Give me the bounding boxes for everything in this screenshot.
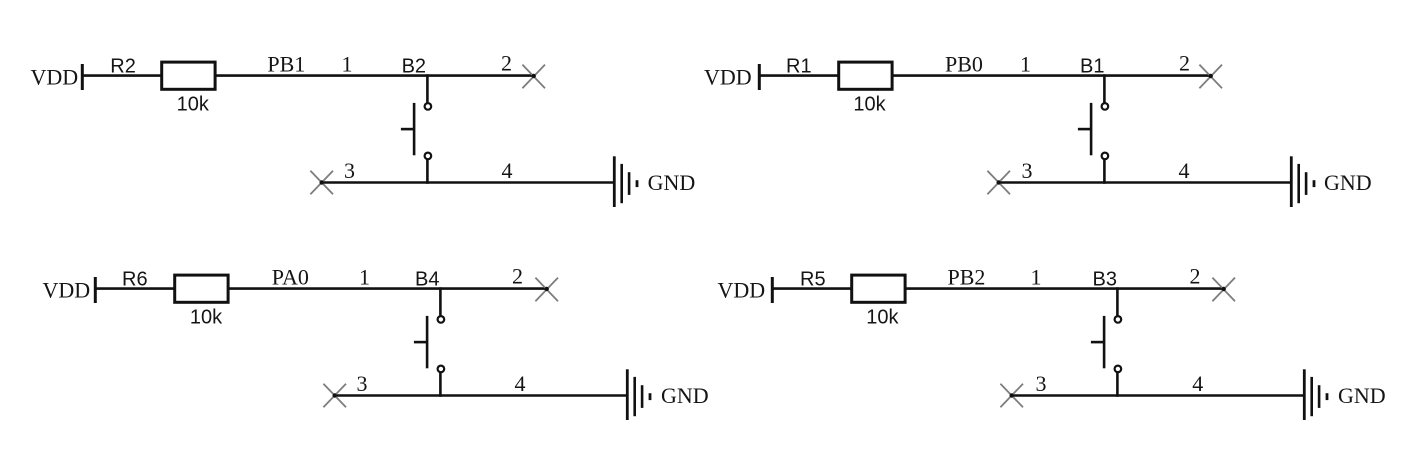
svg-text:10k: 10k — [853, 94, 886, 116]
svg-text:3: 3 — [344, 158, 355, 183]
svg-text:B2: B2 — [402, 56, 426, 78]
svg-text:1: 1 — [359, 264, 370, 289]
svg-text:3: 3 — [1036, 371, 1047, 396]
svg-text:2: 2 — [512, 264, 523, 289]
svg-text:GND: GND — [1324, 170, 1372, 195]
svg-text:GND: GND — [661, 383, 709, 408]
svg-text:3: 3 — [1022, 158, 1033, 183]
svg-text:1: 1 — [1031, 264, 1042, 289]
svg-text:10k: 10k — [177, 94, 210, 116]
svg-text:2: 2 — [1179, 51, 1190, 76]
svg-text:VDD: VDD — [43, 277, 91, 302]
svg-text:B4: B4 — [415, 269, 439, 291]
svg-text:GND: GND — [648, 170, 696, 195]
svg-text:VDD: VDD — [704, 64, 752, 89]
svg-text:1: 1 — [1020, 51, 1031, 76]
svg-text:R1: R1 — [786, 56, 812, 78]
svg-text:PA0: PA0 — [272, 264, 309, 289]
svg-text:R2: R2 — [110, 56, 136, 78]
svg-text:PB1: PB1 — [267, 51, 305, 76]
svg-text:4: 4 — [1192, 371, 1203, 396]
svg-text:2: 2 — [501, 51, 512, 76]
svg-text:4: 4 — [1179, 158, 1190, 183]
svg-text:10k: 10k — [190, 307, 223, 329]
svg-text:3: 3 — [357, 371, 368, 396]
svg-text:PB2: PB2 — [948, 264, 986, 289]
svg-text:B3: B3 — [1093, 269, 1117, 291]
svg-text:4: 4 — [515, 371, 526, 396]
svg-text:GND: GND — [1338, 383, 1386, 408]
svg-text:1: 1 — [342, 51, 353, 76]
svg-text:VDD: VDD — [31, 64, 79, 89]
svg-text:R5: R5 — [800, 269, 826, 291]
svg-text:B1: B1 — [1080, 56, 1104, 78]
svg-text:4: 4 — [502, 158, 513, 183]
svg-text:R6: R6 — [122, 269, 148, 291]
svg-text:2: 2 — [1190, 264, 1201, 289]
svg-text:VDD: VDD — [718, 277, 766, 302]
svg-text:PB0: PB0 — [945, 51, 983, 76]
svg-text:10k: 10k — [866, 307, 899, 329]
